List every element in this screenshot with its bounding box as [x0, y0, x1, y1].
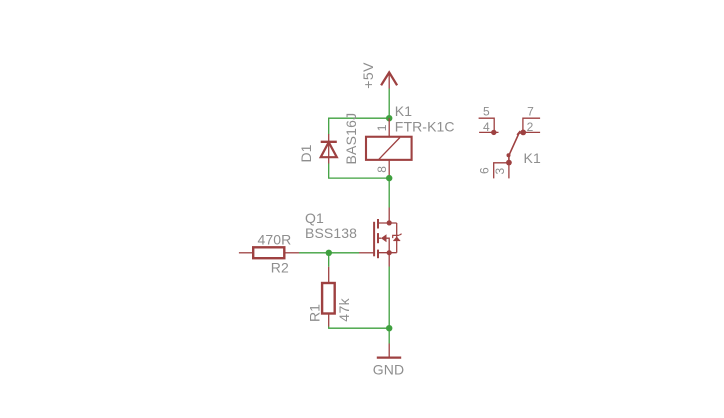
wire D1 anode to node B [329, 164, 390, 179]
ground GND [377, 344, 401, 358]
svg-text:BSS138: BSS138 [305, 225, 357, 241]
svg-text:5: 5 [483, 104, 490, 118]
resistor R2 [239, 247, 299, 258]
wire node A to D1 cathode [329, 118, 390, 134]
svg-text:1: 1 [375, 124, 389, 131]
supply +5V [381, 72, 397, 88]
svg-text:Q1: Q1 [305, 210, 324, 226]
relay contact K1: pin 6 [494, 163, 509, 179]
svg-text:+5V: +5V [360, 62, 376, 89]
relay contact K1: pin 5 [479, 118, 495, 132]
node C junction gate / R1 / R2 [326, 250, 332, 256]
svg-text:D1: D1 [298, 144, 314, 162]
svg-text:FTR-K1C: FTR-K1C [395, 119, 455, 135]
wire +5V to node A [388, 89, 390, 119]
svg-text:47k: 47k [336, 297, 352, 321]
svg-text:R1: R1 [307, 304, 323, 322]
node A junction at K1 pin1 / D1 cathode [386, 115, 392, 121]
svg-text:3: 3 [493, 168, 507, 175]
relay contact K1: pin 3 [506, 160, 512, 179]
svg-text:BAS16J: BAS16J [343, 113, 359, 165]
svg-text:8: 8 [375, 166, 389, 173]
relay contact K1: pin 2 [520, 130, 540, 136]
svg-text:R2: R2 [271, 260, 289, 276]
wire node D to GND [388, 328, 390, 343]
wire Q1 gate to node C [329, 252, 359, 254]
wire node B to Q1 drain [388, 178, 390, 207]
wire R1 to node D [329, 327, 390, 329]
node B junction at K1 pin 8 / D1 anode [386, 175, 392, 181]
svg-text:K1: K1 [395, 103, 412, 119]
wire R2 to node C [299, 252, 329, 254]
resistor R1 [322, 267, 335, 327]
svg-text:4: 4 [483, 120, 490, 134]
relay contact K1: pin 4 [479, 130, 498, 135]
svg-text:K1: K1 [524, 150, 541, 166]
relay coil K1 [366, 118, 412, 178]
relay contact K1: common arm [507, 131, 524, 163]
diode D1 [321, 134, 337, 164]
svg-text:2: 2 [527, 120, 534, 134]
svg-text:470R: 470R [258, 232, 292, 248]
svg-text:6: 6 [478, 167, 492, 174]
svg-text:7: 7 [527, 104, 534, 118]
wire Q1 source to node D [388, 267, 390, 329]
wire node C to R1 [328, 253, 330, 267]
relay contact K1: pin 7 [523, 118, 540, 132]
node D junction at GND [386, 325, 392, 331]
svg-text:GND: GND [373, 362, 404, 378]
transistor Q1 (N-MOSFET) [359, 208, 402, 267]
